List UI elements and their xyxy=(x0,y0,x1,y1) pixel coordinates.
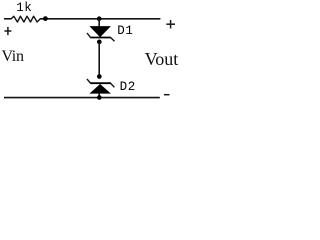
diode D2 zener cathode bar xyxy=(90,82,111,84)
label Vout xyxy=(145,51,179,67)
label 1k resistor value xyxy=(16,2,32,14)
diode D2 triangle (anode, pointing up) xyxy=(89,84,111,94)
diode D1 triangle (anode, pointing down) xyxy=(89,26,111,37)
wire D2 bottom stub xyxy=(98,94,100,98)
resistor R1 1k zigzag xyxy=(11,16,40,22)
wire middle vertical xyxy=(98,42,100,77)
wire top-left lead xyxy=(4,18,11,20)
minus sign right output xyxy=(164,94,170,96)
node dot at D2 bottom xyxy=(97,95,102,100)
label D2 xyxy=(120,81,136,93)
diode D2 zener left wing xyxy=(87,79,91,83)
node dot after resistor xyxy=(43,16,48,21)
label D1 xyxy=(117,25,133,37)
wire bottom rail xyxy=(4,97,160,99)
diode D1 zener right wing xyxy=(111,38,115,42)
wire top rail xyxy=(40,18,160,20)
node dot above D2 xyxy=(97,74,102,79)
diode D2 zener right wing xyxy=(111,83,115,87)
node dot at D1 top xyxy=(97,16,102,21)
node dot below D1 xyxy=(97,40,102,45)
diode D1 zener cathode bar xyxy=(90,37,111,39)
diode D1 zener left wing xyxy=(87,33,90,37)
plus sign left input xyxy=(4,27,11,35)
plus sign right output xyxy=(166,20,175,29)
label Vin xyxy=(2,49,24,64)
wire D1 anode stub xyxy=(98,19,100,27)
